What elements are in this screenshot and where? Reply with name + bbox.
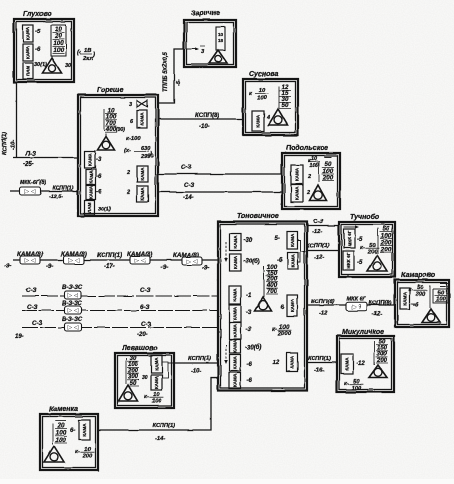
- line unit -3: [229, 323, 241, 340]
- svg-text:-17-: -17-: [104, 264, 115, 270]
- svg-text:КСПП(1): КСПП(1): [306, 243, 329, 249]
- svg-text:-5: -5: [35, 29, 41, 35]
- wire КСПП(1) -10-: [174, 362, 219, 364]
- station box Заричне: [184, 20, 236, 67]
- svg-text:-6: -6: [247, 378, 253, 384]
- svg-text:КАМА: КАМА: [402, 291, 407, 305]
- svg-text:КАМА: КАМА: [88, 185, 93, 199]
- amplifier in Гореше: [105, 134, 107, 137]
- level stack in Глухово: [51, 25, 66, 56]
- svg-text:МКК 6Г: МКК 6Г: [346, 252, 351, 268]
- svg-text:Подольское: Подольское: [286, 144, 328, 152]
- svg-text:100: 100: [257, 96, 267, 102]
- station box Каменка: [40, 414, 98, 470]
- level stack Камарово: [440, 283, 449, 285]
- svg-text:2: 2: [307, 174, 311, 180]
- svg-text:▷ 9: ▷ 9: [352, 305, 362, 311]
- svg-text:2990: 2990: [140, 154, 154, 160]
- svg-text:к-: к-: [344, 381, 349, 387]
- svg-text:МКК 6Г: МКК 6Г: [346, 297, 366, 303]
- svg-text:-3: -3: [246, 310, 252, 316]
- svg-text:КАМА: КАМА: [290, 355, 295, 369]
- svg-text:▷ ◁: ▷ ◁: [68, 308, 79, 314]
- svg-text:КАМА: КАМА: [233, 255, 238, 269]
- svg-text:6-: 6-: [70, 428, 75, 434]
- line units in Глухово: [23, 25, 33, 42]
- svg-text:5-: 5-: [275, 236, 280, 242]
- svg-text:4: 4: [266, 115, 270, 121]
- wire С-З -14- lower: [158, 191, 282, 193]
- wire trunk row 2: [22, 295, 218, 297]
- svg-text:ЛАМ: ЛАМ: [87, 202, 92, 213]
- station box Глухово: [14, 19, 74, 82]
- line unit -30: [230, 234, 242, 251]
- amplifier Микуличкое: [369, 365, 387, 378]
- svg-text:10: 10: [311, 156, 317, 162]
- svg-text:КАМА: КАМА: [154, 375, 159, 389]
- svg-text:С-З: С-З: [26, 287, 37, 294]
- wire КСПП(8) -10-: [158, 118, 243, 120]
- svg-text:19-: 19-: [15, 334, 24, 340]
- svg-text:МКК-6Г(8): МКК-6Г(8): [20, 180, 46, 186]
- svg-text:С-З: С-З: [181, 165, 191, 171]
- svg-text:КАМА: КАМА: [82, 423, 87, 437]
- svg-text:▷ ◁: ▷ ◁: [68, 293, 79, 299]
- wire КСПП(1)-10 vertical from Глухово: [16, 81, 18, 158]
- svg-text:КСПП(8): КСПП(8): [369, 301, 392, 307]
- svg-text:Камарово: Камарово: [401, 272, 436, 279]
- svg-text:С-З: С-З: [141, 321, 152, 328]
- svg-text:-6: -6: [96, 190, 102, 196]
- svg-text:КАМА: КАМА: [87, 152, 92, 166]
- svg-text:100: 100: [352, 386, 362, 392]
- wire КСПП(1) -16-: [307, 362, 337, 364]
- svg-text:): ): [92, 52, 95, 58]
- svg-text:10: 10: [259, 88, 266, 94]
- wire С-З upper: [158, 173, 282, 175]
- svg-text:200: 200: [415, 292, 426, 298]
- coil box 3: [130, 256, 150, 264]
- svg-text:-6: -6: [277, 258, 283, 264]
- svg-text:▷ ◁: ▷ ◁: [187, 259, 198, 265]
- svg-text:-12-: -12-: [372, 311, 382, 317]
- svg-text:КАМА: КАМА: [140, 167, 145, 181]
- svg-text:-20-: -20-: [137, 332, 148, 338]
- svg-text:-30(б): -30(б): [245, 344, 261, 351]
- station box Тоновичное: [218, 222, 307, 391]
- svg-text:-12,5-: -12,5-: [49, 194, 63, 200]
- svg-text:-14-: -14-: [183, 195, 194, 201]
- svg-text:-6: -6: [35, 47, 41, 53]
- line unit Каменка: [79, 420, 90, 440]
- svg-text:КАМА: КАМА: [233, 235, 238, 249]
- svg-text:КАМА: КАМА: [256, 114, 261, 128]
- line units left column Гореше: [85, 151, 96, 168]
- svg-text:-9-: -9-: [4, 264, 11, 270]
- svg-text:12: 12: [273, 360, 280, 366]
- svg-text:-6: -6: [96, 175, 102, 181]
- svg-text:В-З-ЗС: В-З-ЗС: [62, 317, 83, 323]
- svg-text:ТППБ 5х2х0,5: ТППБ 5х2х0,5: [163, 51, 169, 92]
- svg-text:С-З: С-З: [313, 219, 323, 225]
- svg-text:-9-: -9-: [46, 264, 53, 270]
- svg-text:С-З: С-З: [32, 320, 43, 327]
- svg-text:КАМА: КАМА: [88, 170, 93, 184]
- svg-text:В-З-ЗС: В-З-ЗС: [62, 285, 83, 291]
- svg-text:КСПП(1): КСПП(1): [188, 356, 211, 362]
- svg-text:▷ ◁: ▷ ◁: [25, 189, 36, 195]
- svg-text:С-З: С-З: [184, 183, 194, 189]
- svg-text:▷ ◁: ▷ ◁: [69, 258, 80, 264]
- svg-text:к-100: к-100: [126, 136, 141, 142]
- svg-text:▷ ◁: ▷ ◁: [25, 258, 36, 264]
- svg-text:-14-: -14-: [155, 436, 165, 442]
- svg-text:-12: -12: [319, 311, 328, 317]
- bracket to КСПП(1) wire: [298, 240, 301, 262]
- svg-text:КСПП(1): КСПП(1): [97, 252, 122, 259]
- svg-text:к-: к-: [272, 327, 277, 333]
- amplifier central: [255, 297, 272, 311]
- svg-text:к-: к-: [75, 449, 80, 455]
- svg-text:2000: 2000: [277, 332, 292, 338]
- station box Микуличкое: [337, 336, 394, 392]
- station box Левашово: [115, 353, 174, 408]
- svg-text:3: 3: [129, 102, 132, 108]
- svg-text:КАМА: КАМА: [233, 288, 238, 302]
- svg-text:-30: -30: [244, 238, 253, 244]
- svg-text:-5: -5: [357, 237, 363, 243]
- svg-text:КАМА: КАМА: [290, 233, 295, 247]
- svg-text:КАМА: КАМА: [233, 339, 238, 353]
- line unit -6: [229, 373, 241, 389]
- line unit -30(б): [230, 254, 242, 271]
- svg-text:ЛАМ: ЛАМ: [26, 66, 31, 77]
- line unit right top: [137, 110, 147, 128]
- svg-text:С-З: С-З: [27, 304, 38, 311]
- svg-text:1В: 1В: [84, 48, 91, 54]
- svg-text:30(1): 30(1): [34, 62, 47, 68]
- svg-text:МКК 6Г: МКК 6Г: [347, 230, 352, 246]
- svg-text:-9-: -9-: [161, 265, 168, 271]
- svg-text:-16-: -16-: [314, 368, 324, 374]
- svg-text:▷ ◁: ▷ ◁: [68, 325, 79, 331]
- svg-text:-5-: -5-: [176, 79, 182, 86]
- wire Л-З -25-: [13, 157, 78, 159]
- line unit -3: [229, 305, 241, 322]
- svg-text:-25-: -25-: [23, 162, 34, 168]
- svg-text:-3: -3: [246, 327, 252, 333]
- wire С-З -12-: [307, 225, 339, 227]
- line unit upper: [344, 229, 355, 248]
- line unit Суснова: [252, 111, 264, 131]
- station box Камарово: [395, 280, 449, 327]
- svg-text:КАМА: КАМА: [290, 298, 295, 312]
- dashed feed arrow upper: [225, 242, 227, 259]
- svg-text:100: 100: [152, 399, 162, 405]
- svg-text:2кл: 2кл: [82, 56, 93, 62]
- svg-text:КСПП(1): КСПП(1): [52, 186, 74, 192]
- svg-text:): ): [149, 151, 152, 157]
- amplifier Суснова: [269, 109, 288, 125]
- svg-text:-10-: -10-: [199, 124, 210, 130]
- svg-text:Тучнобо: Тучнобо: [350, 213, 380, 221]
- line unit lower: [291, 185, 303, 202]
- svg-text:200: 200: [82, 454, 93, 460]
- svg-text:-3: -3: [96, 157, 102, 163]
- svg-text:КАМА: КАМА: [233, 306, 238, 320]
- line unit right mid: [137, 166, 148, 182]
- svg-text:Заричне: Заричне: [191, 10, 220, 17]
- amplifier Подольское: [310, 185, 327, 201]
- amplifier Каменка: [44, 446, 64, 462]
- value -6: [411, 303, 415, 305]
- amplifier in Заричне: [209, 50, 227, 63]
- svg-text:КАМА: КАМА: [232, 373, 237, 387]
- station box Гореше: [78, 95, 158, 216]
- svg-text:КАМА: КАМА: [233, 355, 238, 369]
- wire trunk row 1: [13, 259, 218, 261]
- svg-text:2: 2: [126, 190, 130, 196]
- feed arrow: [344, 226, 357, 228]
- svg-text:-12-: -12-: [312, 229, 322, 235]
- svg-text:-1: -1: [246, 293, 252, 299]
- wire trunk row 3: [22, 310, 218, 312]
- svg-text:Л-З: Л-З: [25, 152, 36, 158]
- svg-text:КАМА: КАМА: [295, 167, 300, 181]
- svg-text:КАМА: КАМА: [233, 323, 238, 337]
- bracket to edge: [162, 362, 168, 378]
- level stack Подольское: [324, 156, 331, 158]
- svg-text:КСПП(1): КСПП(1): [152, 423, 175, 429]
- svg-text:30(1): 30(1): [98, 207, 111, 213]
- svg-text:Глухово: Глухово: [23, 11, 52, 18]
- svg-text:18: 18: [218, 38, 224, 43]
- svg-text:КАМА: КАМА: [290, 253, 295, 267]
- line unit -1: [229, 286, 241, 304]
- station box Суснова: [243, 79, 298, 135]
- svg-text:Тоновичное: Тоновичное: [237, 213, 279, 220]
- svg-text:100: 100: [309, 163, 318, 169]
- svg-text:Левашово: Левашово: [121, 345, 158, 352]
- wire ТППБ 5х2х0,5 from Заричне to Гореше: [158, 49, 184, 103]
- svg-text:КАМА: КАМА: [154, 357, 159, 371]
- svg-text:КАМА: КАМА: [26, 45, 31, 59]
- svg-text:-6: -6: [247, 362, 253, 368]
- svg-text:Гореше: Гореше: [97, 87, 124, 94]
- wire trunk row 4: [22, 327, 218, 329]
- svg-text:КАМА: КАМА: [140, 187, 145, 201]
- dashed feed arrow lower: [225, 345, 227, 361]
- svg-text:30: 30: [65, 63, 71, 69]
- line unit -6: [230, 355, 241, 372]
- svg-text:2: 2: [306, 190, 310, 196]
- svg-text:КСПП(1): КСПП(1): [2, 132, 8, 155]
- svg-text:-6: -6: [413, 303, 419, 309]
- wire КСПП(1) -14-: [98, 378, 219, 430]
- line unit upper: [291, 165, 303, 184]
- coil box 1: [20, 256, 40, 264]
- svg-text:-9-: -9-: [202, 266, 209, 272]
- svg-text:Каменка: Каменка: [49, 406, 78, 413]
- amplifier Камарово: [422, 309, 440, 323]
- svg-text:(х-: (х-: [124, 148, 131, 154]
- wire КСПП(8) МКК-6Г КСПП(8): [307, 304, 395, 306]
- svg-text:10: 10: [218, 32, 224, 37]
- repeater unit in Заричне: [216, 27, 225, 50]
- coil box 2: [64, 256, 84, 264]
- svg-text:КАМА: КАМА: [345, 357, 350, 371]
- svg-text:КСПП(1): КСПП(1): [308, 356, 331, 362]
- svg-text:-10-: -10-: [191, 368, 201, 374]
- amplifier Тучнобо: [367, 255, 387, 271]
- line unit -30(б): [230, 339, 241, 353]
- line unit Камарово: [400, 288, 410, 309]
- amplifier in Глухово: [51, 56, 53, 58]
- svg-text:(30): (30): [116, 127, 125, 133]
- station box Тучнобо: [339, 222, 395, 277]
- svg-text:КАМА: КАМА: [26, 26, 31, 40]
- svg-text:-12-: -12-: [314, 255, 324, 261]
- wire МКК-6-З(8) КСПП(1) -12,5-: [10, 190, 78, 192]
- line unit lower: [343, 251, 354, 270]
- svg-text:КАМА: КАМА: [295, 186, 300, 200]
- svg-text:КСПП(8): КСПП(8): [311, 299, 334, 305]
- station box Подольское: [282, 153, 340, 209]
- wire КСПП(1) -12-: [307, 250, 339, 252]
- svg-text:▷ ◁: ▷ ◁: [135, 258, 146, 264]
- svg-text:Микуличкое: Микуличкое: [342, 329, 384, 336]
- line unit Микуличкое: [341, 354, 353, 374]
- line unit upper: [151, 355, 162, 373]
- level stack Каменка: [55, 420, 66, 422]
- svg-text:-10-: -10-: [11, 140, 17, 150]
- feed arrow in Заричне: [187, 48, 197, 50]
- svg-text:-5: -5: [357, 260, 363, 266]
- svg-text:КАМА: КАМА: [140, 112, 145, 126]
- svg-text:КСПП(8): КСПП(8): [195, 113, 219, 119]
- svg-text:30: 30: [142, 375, 148, 381]
- svg-text:-12: -12: [356, 361, 365, 367]
- svg-text:С-З: С-З: [140, 287, 151, 294]
- line unit lower: [151, 375, 162, 390]
- svg-text:Суснова: Суснова: [249, 71, 278, 78]
- line unit right bottom: [137, 186, 148, 202]
- amplifier Левашово: [119, 385, 138, 401]
- svg-text:2: 2: [126, 170, 130, 176]
- svg-text:к-: к-: [360, 245, 365, 251]
- svg-text:6-З: 6-З: [140, 304, 150, 311]
- svg-text:(‹: (‹: [77, 50, 81, 56]
- svg-text:-30(б): -30(б): [244, 258, 260, 265]
- svg-text:к-: к-: [144, 394, 149, 400]
